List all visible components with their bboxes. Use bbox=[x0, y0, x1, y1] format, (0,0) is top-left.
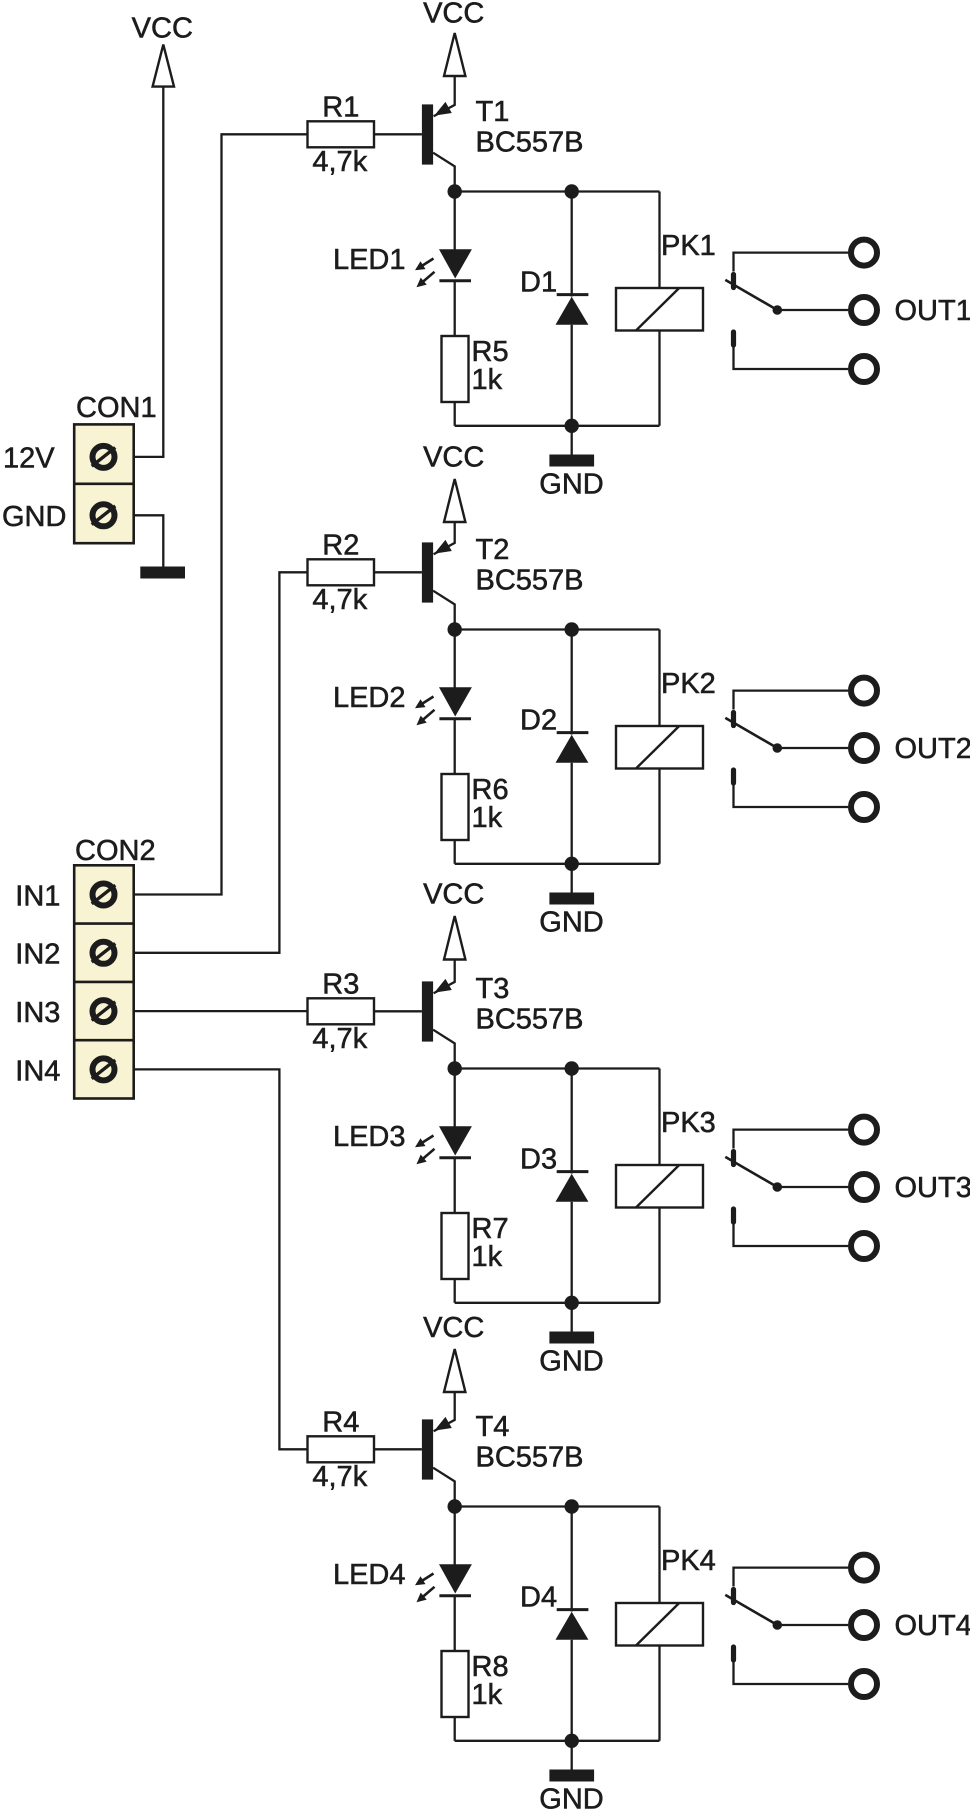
wire to LED2 bbox=[454, 630, 456, 689]
resistor R1 bbox=[308, 121, 375, 147]
diode D2 bbox=[557, 731, 589, 734]
ground ch2 bbox=[571, 864, 573, 893]
wire R8 to gnd rail bbox=[454, 1717, 456, 1741]
node diode junction ch1 bbox=[565, 184, 579, 198]
wire CON1 GND to ground bbox=[134, 515, 164, 566]
node collector junction ch4 bbox=[448, 1499, 462, 1513]
wire collector of T1 bbox=[433, 153, 455, 192]
svg-text:GND: GND bbox=[539, 1346, 603, 1378]
wire relay coil top ch1 bbox=[658, 192, 660, 289]
wire R5 to gnd rail bbox=[454, 402, 456, 426]
svg-text:LED2: LED2 bbox=[333, 682, 406, 714]
terminal circle mid ch1 bbox=[851, 297, 877, 323]
wire relay coil bottom ch1 bbox=[658, 331, 660, 426]
CON2 pin 2 screw (IN2) bbox=[93, 942, 115, 964]
power VCC arrow (T4 emitter) bbox=[444, 1349, 465, 1392]
svg-text:T1: T1 bbox=[476, 96, 510, 128]
wire LED1 to R5 bbox=[454, 281, 456, 336]
resistor R8 bbox=[442, 1651, 469, 1717]
wire to LED3 bbox=[454, 1069, 456, 1128]
transistor T3 emitter arrow bbox=[434, 979, 452, 993]
ground ch4 bbox=[571, 1741, 573, 1770]
wire base of T3 bbox=[374, 1010, 422, 1012]
svg-text:1k: 1k bbox=[472, 802, 503, 834]
terminal circle top ch3 bbox=[851, 1117, 877, 1143]
contact tick top ch4 bbox=[731, 1590, 736, 1603]
svg-text:IN2: IN2 bbox=[15, 939, 60, 971]
LED LED4 bbox=[439, 1564, 472, 1593]
wire IN1 to R1 bbox=[134, 134, 308, 894]
svg-text:GND: GND bbox=[2, 501, 66, 533]
wire common to OUT3 bbox=[777, 1186, 848, 1188]
svg-text:PK2: PK2 bbox=[661, 668, 716, 700]
LED3 light arrows bbox=[421, 1136, 433, 1144]
wire common to OUT2 bbox=[777, 747, 848, 749]
resistor R6 bbox=[442, 774, 469, 840]
svg-text:T3: T3 bbox=[476, 973, 510, 1005]
svg-text:R1: R1 bbox=[322, 91, 359, 123]
node collector junction ch1 bbox=[448, 184, 462, 198]
svg-text:BC557B: BC557B bbox=[476, 564, 584, 596]
wire gnd rail ch4 bbox=[455, 1740, 660, 1742]
svg-text:PK3: PK3 bbox=[661, 1107, 716, 1139]
terminal circle top ch2 bbox=[851, 678, 877, 704]
relay PK3 coil bbox=[616, 1165, 703, 1208]
terminal circle bottom ch4 bbox=[851, 1671, 877, 1697]
svg-text:VCC: VCC bbox=[423, 879, 484, 911]
terminal circle mid ch2 bbox=[851, 735, 877, 761]
resistor R5 bbox=[442, 336, 469, 402]
svg-text:4,7k: 4,7k bbox=[312, 584, 367, 616]
wire relay coil top ch3 bbox=[658, 1069, 660, 1166]
power VCC arrow (T2 emitter) bbox=[444, 479, 465, 522]
node gnd junction ch2 bbox=[565, 857, 579, 871]
wire IN4 to R4 bbox=[134, 1069, 308, 1449]
ground (CON1) bbox=[140, 567, 185, 579]
resistor R7 bbox=[442, 1213, 469, 1279]
CON2 pin 3 screw (IN3) bbox=[93, 1000, 115, 1022]
svg-text:PK4: PK4 bbox=[661, 1545, 716, 1577]
terminal circle bottom ch3 bbox=[851, 1233, 877, 1259]
wire LED2 to R6 bbox=[454, 719, 456, 774]
contact tick top ch3 bbox=[731, 1152, 736, 1165]
contact tick top ch1 bbox=[731, 275, 736, 288]
wire IN3 to R3 bbox=[134, 1010, 308, 1012]
wire LED3 to R7 bbox=[454, 1158, 456, 1213]
svg-text:D2: D2 bbox=[520, 705, 557, 737]
contact tick bottom ch2 bbox=[731, 770, 736, 783]
wire to diode D1 bbox=[571, 192, 573, 297]
wire collector of T2 bbox=[433, 591, 455, 630]
wire NO contact bottom ch1 bbox=[734, 347, 849, 370]
wire collector of T3 bbox=[433, 1030, 455, 1069]
svg-text:LED3: LED3 bbox=[333, 1121, 406, 1153]
relay PK4 coil bbox=[616, 1603, 703, 1646]
wire common to OUT4 bbox=[777, 1624, 848, 1626]
svg-text:LED1: LED1 bbox=[333, 244, 406, 276]
node gnd junction ch4 bbox=[565, 1734, 579, 1748]
transistor T2 base bar bbox=[422, 542, 433, 602]
CON1 pin 2 screw (GND) bbox=[93, 504, 115, 526]
wire to diode D2 bbox=[571, 630, 573, 735]
wire emitter of T4 bbox=[434, 1392, 455, 1431]
svg-text:VCC: VCC bbox=[423, 0, 484, 30]
svg-text:T4: T4 bbox=[476, 1411, 510, 1443]
svg-text:12V: 12V bbox=[3, 442, 55, 474]
svg-text:GND: GND bbox=[539, 1784, 603, 1810]
node collector junction ch2 bbox=[448, 622, 462, 636]
wire VCC to CON1 12V bbox=[134, 87, 164, 457]
svg-text:IN1: IN1 bbox=[15, 880, 60, 912]
wire collector rail ch3 bbox=[455, 1067, 660, 1069]
svg-text:4,7k: 4,7k bbox=[312, 146, 367, 178]
wire relay coil bottom ch3 bbox=[658, 1208, 660, 1303]
ground ch1 bbox=[571, 426, 573, 455]
svg-text:4,7k: 4,7k bbox=[312, 1461, 367, 1493]
LED LED1 bbox=[439, 249, 472, 278]
wire collector of T4 bbox=[433, 1468, 455, 1507]
wire emitter of T3 bbox=[434, 960, 455, 994]
wire collector rail ch1 bbox=[455, 190, 660, 192]
svg-text:1k: 1k bbox=[472, 364, 503, 396]
wire NO contact bottom ch3 bbox=[734, 1224, 849, 1247]
svg-text:IN3: IN3 bbox=[15, 997, 60, 1029]
svg-text:R2: R2 bbox=[322, 529, 359, 561]
diode D3 bbox=[557, 1170, 589, 1173]
svg-text:GND: GND bbox=[539, 469, 603, 501]
node gnd junction ch3 bbox=[565, 1296, 579, 1310]
LED1 light arrows bbox=[421, 259, 433, 267]
wire relay coil bottom ch4 bbox=[658, 1646, 660, 1741]
svg-text:R4: R4 bbox=[322, 1406, 359, 1438]
svg-text:BC557B: BC557B bbox=[476, 1441, 584, 1473]
svg-text:D1: D1 bbox=[520, 267, 557, 299]
terminal circle mid ch3 bbox=[851, 1174, 877, 1200]
resistor R4 bbox=[308, 1436, 375, 1462]
wire emitter of T1 bbox=[434, 76, 455, 116]
svg-text:1k: 1k bbox=[472, 1679, 503, 1711]
svg-text:VCC: VCC bbox=[423, 442, 484, 474]
svg-text:CON2: CON2 bbox=[75, 835, 156, 867]
wire NO contact bottom ch4 bbox=[734, 1662, 849, 1685]
wire to LED1 bbox=[454, 192, 456, 251]
transistor T3 base bar bbox=[422, 981, 433, 1041]
resistor R2 bbox=[308, 559, 375, 585]
svg-text:CON1: CON1 bbox=[76, 392, 157, 424]
wire emitter of T2 bbox=[434, 522, 455, 554]
switch arm PK2 bbox=[725, 718, 777, 748]
svg-text:OUT4: OUT4 bbox=[895, 1610, 970, 1642]
wire base of T2 bbox=[374, 571, 422, 573]
terminal circle mid ch4 bbox=[851, 1612, 877, 1638]
terminal circle top ch1 bbox=[851, 240, 877, 266]
wire NC contact top ch3 bbox=[734, 1130, 849, 1149]
transistor T2 emitter arrow bbox=[434, 540, 452, 554]
wire LED4 to R8 bbox=[454, 1596, 456, 1651]
svg-text:LED4: LED4 bbox=[333, 1559, 406, 1591]
CON2 pin 4 screw (IN4) bbox=[93, 1058, 115, 1080]
wire NC contact top ch2 bbox=[734, 691, 849, 710]
contact tick bottom ch3 bbox=[731, 1209, 736, 1222]
wire to diode D3 bbox=[571, 1069, 573, 1174]
svg-text:BC557B: BC557B bbox=[476, 126, 584, 158]
wire collector rail ch2 bbox=[455, 628, 660, 630]
LED LED3 bbox=[439, 1126, 472, 1155]
node diode junction ch3 bbox=[565, 1061, 579, 1075]
terminal circle bottom ch1 bbox=[851, 356, 877, 382]
wire common to OUT1 bbox=[777, 309, 848, 311]
CON2 pin 1 screw (IN1) bbox=[93, 884, 115, 906]
CON1 pin 1 screw (12V) bbox=[93, 446, 115, 468]
switch arm PK4 bbox=[725, 1595, 777, 1625]
contact tick bottom ch4 bbox=[731, 1647, 736, 1660]
wire R7 to gnd rail bbox=[454, 1279, 456, 1303]
wire relay coil bottom ch2 bbox=[658, 769, 660, 864]
svg-text:T2: T2 bbox=[476, 534, 510, 566]
terminal circle bottom ch2 bbox=[851, 794, 877, 820]
wire relay coil top ch4 bbox=[658, 1507, 660, 1604]
wire collector rail ch4 bbox=[455, 1505, 660, 1507]
wire to LED4 bbox=[454, 1507, 456, 1566]
diode D4 bbox=[557, 1608, 589, 1611]
ground ch3 bbox=[571, 1303, 573, 1332]
LED2 light arrows bbox=[421, 697, 433, 705]
contact tick top ch2 bbox=[731, 713, 736, 726]
terminal circle top ch4 bbox=[851, 1555, 877, 1581]
transistor T1 emitter arrow bbox=[434, 102, 452, 116]
switch arm PK1 bbox=[725, 280, 777, 310]
node collector junction ch3 bbox=[448, 1061, 462, 1075]
transistor T4 base bar bbox=[422, 1419, 433, 1479]
node diode junction ch4 bbox=[565, 1499, 579, 1513]
svg-text:OUT3: OUT3 bbox=[895, 1172, 970, 1204]
svg-text:VCC: VCC bbox=[423, 1312, 484, 1344]
relay PK2 coil bbox=[616, 726, 703, 769]
transistor T4 emitter arrow bbox=[434, 1417, 452, 1431]
relay PK1 coil bbox=[616, 288, 703, 331]
svg-text:IN4: IN4 bbox=[15, 1055, 60, 1087]
svg-text:R3: R3 bbox=[322, 968, 359, 1000]
contact tick bottom ch1 bbox=[731, 332, 736, 345]
wire base of T1 bbox=[374, 133, 422, 135]
svg-text:GND: GND bbox=[539, 907, 603, 939]
switch arm PK3 bbox=[725, 1157, 777, 1187]
LED4 light arrows bbox=[421, 1574, 433, 1582]
diode D1 bbox=[557, 293, 589, 296]
svg-text:D4: D4 bbox=[520, 1582, 557, 1614]
wire to diode D4 bbox=[571, 1507, 573, 1612]
svg-text:VCC: VCC bbox=[132, 13, 193, 45]
power VCC arrow (supply) bbox=[153, 45, 174, 87]
svg-text:OUT2: OUT2 bbox=[895, 733, 970, 765]
node gnd junction ch1 bbox=[565, 419, 579, 433]
svg-text:D3: D3 bbox=[520, 1144, 557, 1176]
resistor R3 bbox=[308, 998, 375, 1024]
svg-text:BC557B: BC557B bbox=[476, 1003, 584, 1035]
node switch pivot ch2 bbox=[773, 743, 783, 753]
node diode junction ch2 bbox=[565, 622, 579, 636]
wire base of T4 bbox=[374, 1448, 422, 1450]
transistor T1 base bar bbox=[422, 104, 433, 164]
wire NO contact bottom ch2 bbox=[734, 785, 849, 808]
power VCC arrow (T3 emitter) bbox=[444, 916, 465, 960]
wire relay coil top ch2 bbox=[658, 630, 660, 727]
wire IN2 to R2 bbox=[134, 572, 308, 953]
node switch pivot ch3 bbox=[773, 1182, 783, 1192]
wire gnd rail ch2 bbox=[455, 863, 660, 865]
wire gnd rail ch1 bbox=[455, 425, 660, 427]
svg-text:PK1: PK1 bbox=[661, 230, 716, 262]
svg-text:1k: 1k bbox=[472, 1241, 503, 1273]
wire gnd rail ch3 bbox=[455, 1302, 660, 1304]
wire NC contact top ch1 bbox=[734, 253, 849, 272]
LED LED2 bbox=[439, 687, 472, 716]
power VCC arrow (T1 emitter) bbox=[444, 33, 465, 76]
svg-text:OUT1: OUT1 bbox=[895, 295, 970, 327]
wire R6 to gnd rail bbox=[454, 840, 456, 864]
node switch pivot ch4 bbox=[773, 1620, 783, 1630]
wire NC contact top ch4 bbox=[734, 1568, 849, 1587]
svg-text:4,7k: 4,7k bbox=[312, 1023, 367, 1055]
node switch pivot ch1 bbox=[773, 305, 783, 315]
